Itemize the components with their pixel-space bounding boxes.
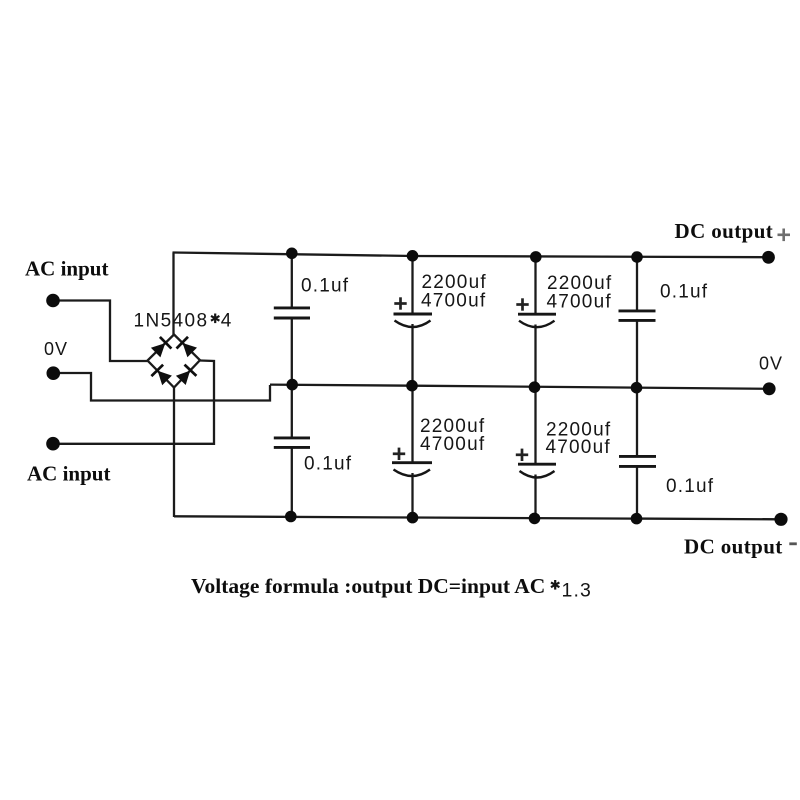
node: AC input top terminal [46,294,60,308]
svg-text:0.1uf: 0.1uf [660,282,708,303]
svg-text:DC output: DC output [675,219,774,243]
wire: mid 0V rail [270,385,769,389]
wire: column3 top, rail to C3 [534,257,536,313]
node: DC output + terminal [762,251,775,264]
wire: bridge top vertex to DC+ rail [172,253,174,336]
junction: mid rail / col2 [406,380,418,392]
junction: top rail / col1 [286,248,298,260]
capacitor C5 0.1uf (col1 bottom) plates [274,438,310,448]
svg-text:1.3: 1.3 [562,580,592,602]
wire: column1, C5 to bottom rail [291,448,293,517]
node: DC output - terminal [774,513,787,526]
svg-text:0.1uf: 0.1uf [301,276,349,297]
junction: mid rail / col4 [631,382,643,394]
wire: column2, C2 to mid rail [411,324,413,386]
junction: bottom rail / col4 [631,513,643,525]
diode D4 (lower-right arm of bridge) [176,365,197,385]
svg-text:4700uf: 4700uf [421,291,486,312]
label: formula factor *1.3 [551,580,559,590]
junction: bottom rail / col1 [285,511,297,523]
svg-text:4700uf: 4700uf [420,434,485,455]
node: 0V left terminal [47,366,61,380]
wire: 0V input to mid rail (with jogs) [53,373,270,401]
junction: bottom rail / col2 [407,512,419,524]
wire: top DC+ rail [173,253,769,258]
diode D2 (upper-right arm of bridge) [177,337,198,358]
capacitor C1 0.1uf (col1 top) plates [274,308,310,318]
svg-text:0.1uf: 0.1uf [304,454,352,475]
svg-text:4700uf: 4700uf [547,292,612,313]
wire: column4, mid rail to C8 [636,388,638,456]
wire: column2, C6 to bottom rail [411,473,413,518]
wire: column1, mid rail to C5 [291,385,293,438]
wire: column4, C8 to bottom rail [636,467,638,519]
svg-text:1N5408: 1N5408 [134,311,209,332]
bridge rectifier B1 diamond outline [148,335,201,388]
wire: column3, C3 to mid rail [534,325,536,388]
junction: top rail / col3 [530,251,542,263]
node: AC input bottom terminal [46,437,60,451]
svg-text:AC input: AC input [27,462,110,486]
capacitor C6 electrolytic (col2 bottom) plates [392,463,432,476]
capacitor C8 0.1uf (col4 bottom) plates [619,456,656,466]
wire: AC input bottom to bridge right vertex [53,361,214,444]
wire: bottom DC- rail [174,516,781,519]
wire: column2, mid rail to C6 [411,386,413,462]
junction: top rail / col4 [631,251,643,263]
polarity + of C7 [516,449,528,461]
capacitor C2 electrolytic (col2 top) plates [394,314,433,327]
wire: column4 top, rail to C4 [636,257,638,311]
junction: top rail / col2 [407,250,419,262]
svg-text:4: 4 [221,311,232,332]
polarity + of C6 [393,448,405,460]
polarity + of C2 [394,297,406,309]
label: - polarity of DC output [789,542,797,545]
wire: column2 top, rail to C2 [411,256,413,314]
svg-text:Voltage formula :output DC=inp: Voltage formula :output DC=input AC [191,574,545,598]
wire: column3, mid rail to C7 [534,387,536,463]
wire: column3, C7 to bottom rail [534,475,536,519]
svg-text:AC input: AC input [25,257,108,281]
diode D1 (upper-left arm of bridge) [151,337,172,358]
wire: column4, C4 to mid rail [636,321,638,388]
polarity + of C3 [516,298,528,310]
svg-text:0V: 0V [759,354,783,374]
svg-text:0.1uf: 0.1uf [666,476,714,497]
wire: column1 top, rail to C1 [291,253,293,308]
diode D3 (lower-left arm of bridge) [151,365,172,386]
capacitor C4 0.1uf (col4 top) plates [619,311,656,321]
junction: bottom rail / col3 [529,513,541,525]
svg-text:DC output: DC output [684,535,783,559]
wire: AC input top to bridge left vertex [52,301,148,362]
capacitor C3 electrolytic (col3 top) plates [518,314,556,327]
svg-text:0V: 0V [44,339,68,359]
junction: mid rail / col1 [286,379,298,391]
label: + polarity of DC output [778,229,791,242]
wire: column1, C1 to mid rail [291,318,293,385]
svg-text:4700uf: 4700uf [546,437,611,458]
wire: bridge bottom vertex down to DC- rail [173,388,175,518]
junction: mid rail / col3 [529,381,541,393]
capacitor C7 electrolytic (col3 bottom) plates [518,464,556,477]
node: 0V right terminal [763,382,776,395]
